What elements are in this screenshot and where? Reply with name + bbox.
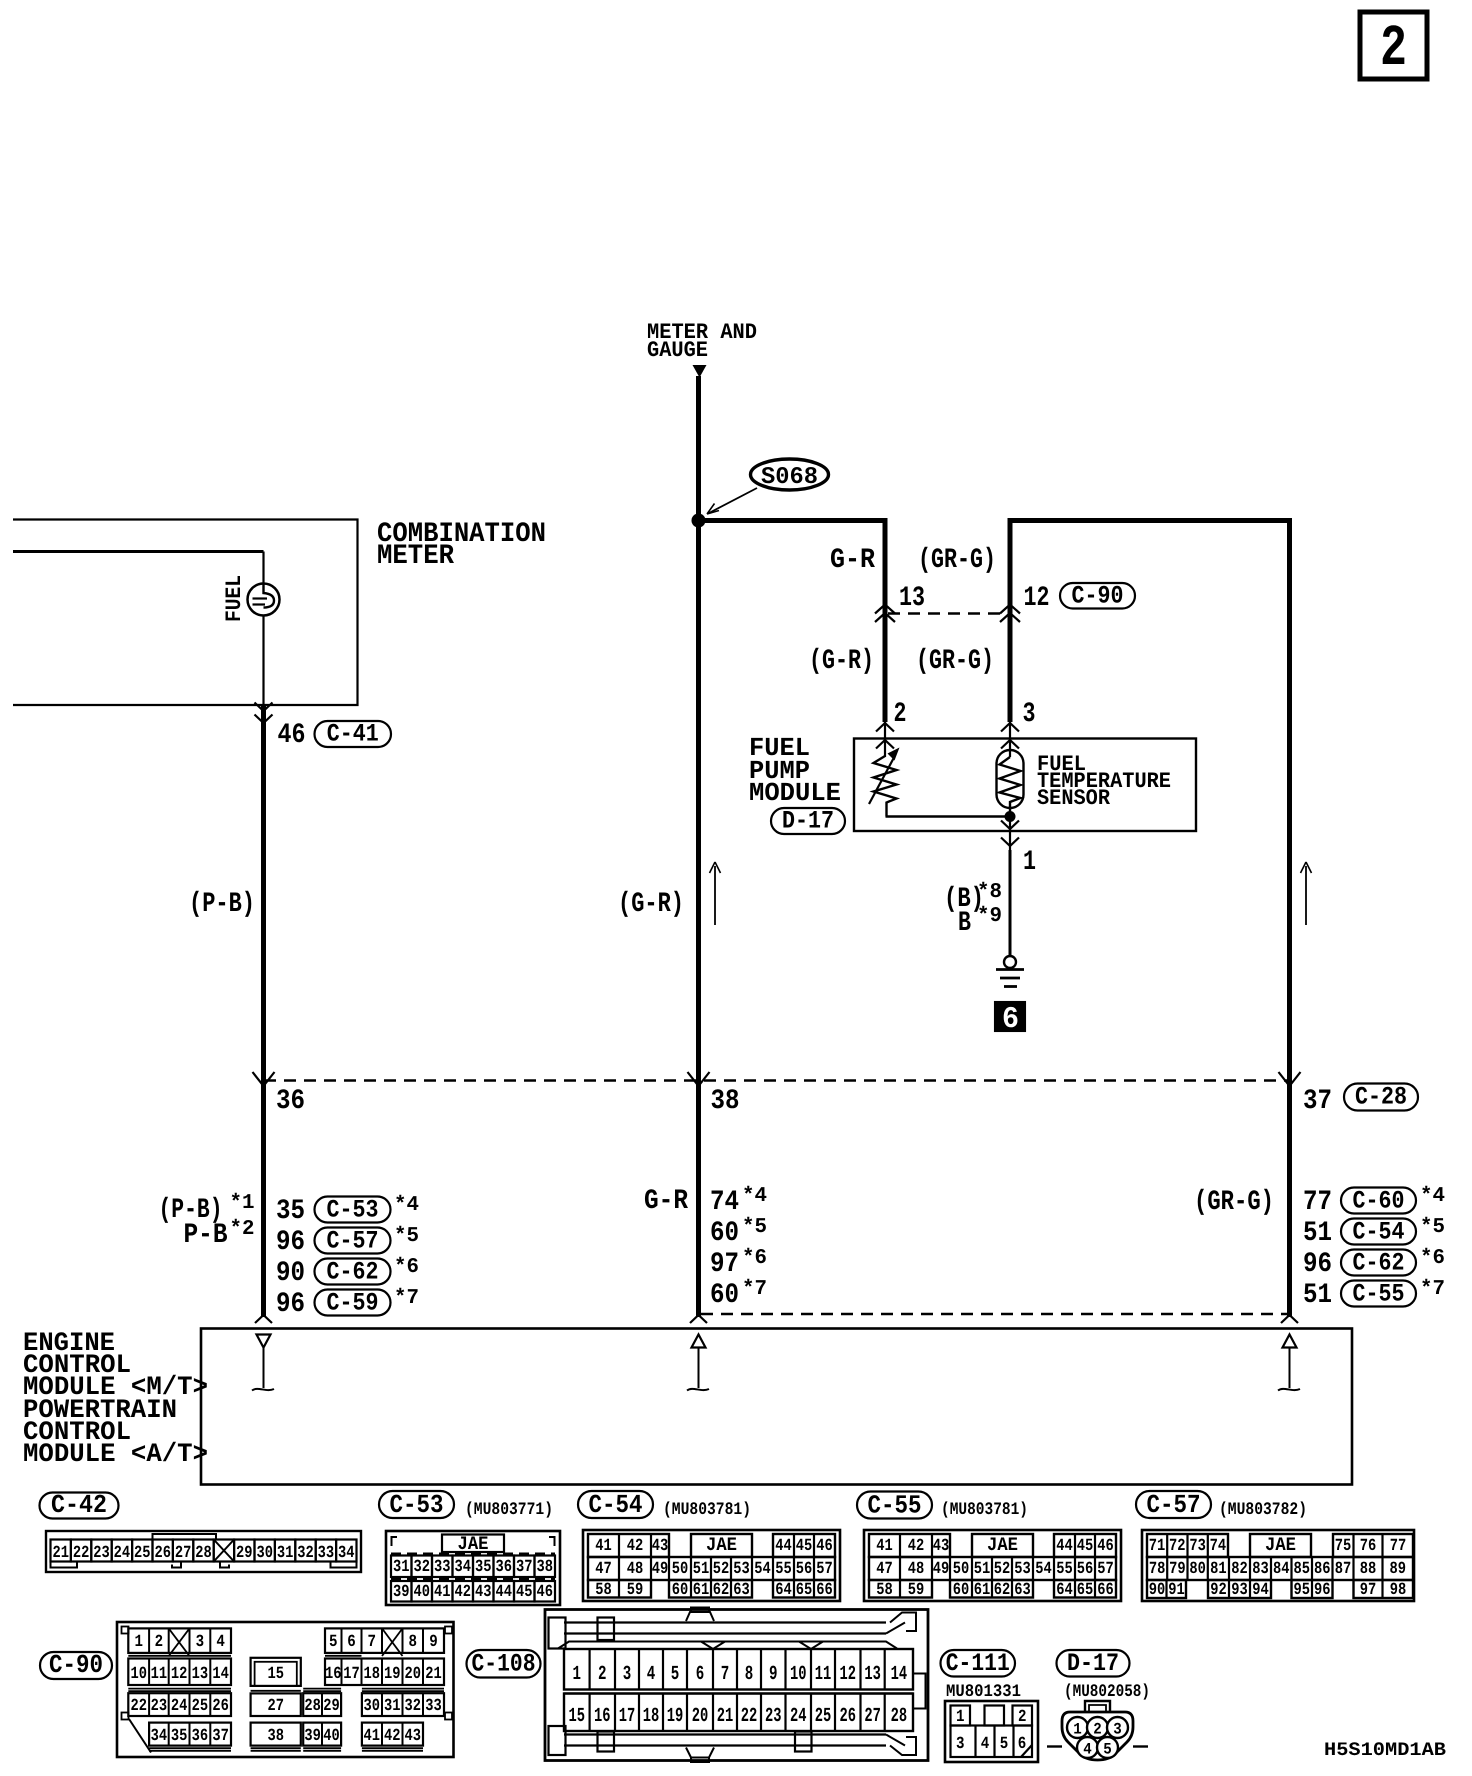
- svg-text:*5: *5: [394, 1225, 419, 1248]
- svg-text:JAE: JAE: [706, 1534, 737, 1556]
- svg-text:31: 31: [277, 1544, 294, 1563]
- svg-text:15: 15: [267, 1665, 284, 1684]
- svg-text:42: 42: [384, 1727, 401, 1746]
- svg-text:S068: S068: [761, 464, 818, 491]
- C-28 chevron right wire: [1279, 1072, 1301, 1086]
- svg-text:49: 49: [652, 1560, 669, 1579]
- svg-text:49: 49: [933, 1560, 950, 1579]
- wire P-B vertical to ECM: [261, 705, 266, 1317]
- pin 1 chevron pair: [1001, 821, 1019, 847]
- combination meter box: [13, 520, 358, 706]
- connector label C-41 stadium: [315, 721, 392, 747]
- svg-text:51: 51: [1303, 1280, 1332, 1311]
- svg-text:23: 23: [93, 1544, 110, 1563]
- svg-text:41: 41: [876, 1537, 893, 1556]
- ECM entry chevron right: [1281, 1315, 1298, 1323]
- svg-text:33: 33: [425, 1697, 442, 1716]
- svg-text:*1: *1: [230, 1192, 255, 1215]
- svg-text:C-41: C-41: [327, 720, 379, 749]
- svg-text:46: 46: [278, 720, 306, 751]
- svg-text:4: 4: [981, 1735, 990, 1754]
- svg-text:29: 29: [323, 1697, 340, 1716]
- connector C-90 pinout: [117, 1622, 454, 1757]
- connector label C-55 stadium with part number: [857, 1491, 1028, 1521]
- svg-text:96: 96: [276, 1227, 305, 1258]
- svg-text:1: 1: [573, 1663, 582, 1686]
- svg-text:27: 27: [267, 1697, 284, 1716]
- svg-text:*8: *8: [977, 881, 1002, 904]
- svg-text:54: 54: [754, 1560, 771, 1579]
- wire direction arrow middle: [710, 862, 721, 925]
- svg-text:23: 23: [765, 1705, 782, 1728]
- svg-text:6: 6: [1018, 1735, 1027, 1754]
- ground reference box 6: [994, 1001, 1026, 1037]
- svg-text:37: 37: [516, 1558, 533, 1577]
- pin 90 connector C-62*6 left: [276, 1256, 419, 1289]
- svg-text:52: 52: [713, 1560, 730, 1579]
- svg-text:17: 17: [619, 1705, 636, 1728]
- pin 96 connector C-57*5 left: [276, 1225, 419, 1258]
- svg-text:58: 58: [876, 1581, 893, 1600]
- svg-text:65: 65: [1077, 1581, 1094, 1600]
- svg-text:4: 4: [216, 1633, 225, 1652]
- connector label C-42 stadium: [40, 1493, 119, 1519]
- engine control module label: [23, 1328, 208, 1469]
- svg-text:24: 24: [114, 1544, 131, 1563]
- dashed wire through C-90: [888, 612, 1007, 615]
- fuel gauge symbol: [248, 584, 280, 616]
- svg-text:*4: *4: [1420, 1185, 1445, 1208]
- svg-text:18: 18: [643, 1705, 660, 1728]
- fuel temperature sensor thermistor capsule: [997, 750, 1024, 808]
- wire feed into fuel gauge: [13, 552, 264, 585]
- svg-text:39: 39: [393, 1583, 410, 1602]
- svg-text:48: 48: [627, 1560, 644, 1579]
- svg-text:34: 34: [338, 1544, 355, 1563]
- svg-text:5: 5: [329, 1633, 338, 1652]
- svg-text:*6: *6: [1420, 1247, 1445, 1270]
- svg-text:41: 41: [363, 1727, 380, 1746]
- connector label C-28 stadium: [1344, 1084, 1418, 1111]
- svg-text:36: 36: [192, 1727, 209, 1746]
- svg-text:6: 6: [696, 1663, 705, 1686]
- svg-text:22: 22: [130, 1697, 147, 1716]
- svg-text:6: 6: [1002, 1003, 1019, 1037]
- svg-text:47: 47: [595, 1560, 612, 1579]
- svg-text:13: 13: [899, 583, 925, 614]
- svg-text:84: 84: [1273, 1560, 1290, 1579]
- C-28 chevron middle wire: [688, 1072, 710, 1086]
- svg-text:37: 37: [212, 1727, 229, 1746]
- svg-text:21: 21: [52, 1544, 69, 1563]
- svg-text:C-57: C-57: [1147, 1490, 1201, 1520]
- svg-text:10: 10: [130, 1665, 147, 1684]
- svg-text:19: 19: [384, 1665, 401, 1684]
- svg-text:31: 31: [393, 1558, 410, 1577]
- connector label C-108 stadium: [467, 1650, 541, 1678]
- svg-text:(MU803781): (MU803781): [663, 1500, 751, 1520]
- fuel temperature sensor label: [1037, 752, 1171, 811]
- ground symbol 6: [996, 956, 1024, 987]
- svg-text:7: 7: [367, 1633, 376, 1652]
- svg-text:61: 61: [693, 1581, 710, 1600]
- svg-text:C-54: C-54: [589, 1490, 643, 1520]
- svg-text:*6: *6: [742, 1247, 767, 1270]
- svg-text:43: 43: [404, 1727, 421, 1746]
- svg-text:3: 3: [1113, 1721, 1122, 1739]
- svg-text:21: 21: [425, 1665, 442, 1684]
- svg-text:H5S10MD1AB: H5S10MD1AB: [1324, 1739, 1446, 1761]
- pin 60*5 middle: [710, 1216, 767, 1249]
- ECM terminal pin 38: [687, 1335, 709, 1391]
- svg-text:JAE: JAE: [987, 1534, 1018, 1556]
- svg-text:(GR-G): (GR-G): [1194, 1187, 1274, 1218]
- connector C-90 pin 12 chevron: [1000, 605, 1020, 614]
- svg-text:36: 36: [276, 1086, 305, 1117]
- svg-text:11: 11: [151, 1665, 168, 1684]
- svg-text:11: 11: [815, 1663, 832, 1686]
- svg-text:13: 13: [864, 1663, 881, 1686]
- svg-text:15: 15: [569, 1705, 586, 1728]
- svg-text:28: 28: [304, 1697, 321, 1716]
- svg-text:7: 7: [721, 1663, 730, 1686]
- svg-text:14: 14: [212, 1665, 229, 1684]
- ECM entry chevron middle: [690, 1315, 707, 1323]
- svg-text:42: 42: [627, 1537, 644, 1556]
- svg-text:74: 74: [1210, 1537, 1227, 1556]
- svg-text:28: 28: [195, 1544, 212, 1563]
- svg-text:35: 35: [475, 1558, 492, 1577]
- svg-text:12: 12: [1024, 583, 1050, 614]
- svg-text:3: 3: [196, 1633, 205, 1652]
- svg-text:(GR-G): (GR-G): [916, 646, 994, 677]
- svg-text:9: 9: [769, 1663, 778, 1686]
- pin 77 connector C-60*4 right: [1303, 1185, 1445, 1218]
- dashed wire above ECM: [701, 1313, 1288, 1316]
- ECM entry chevron left: [255, 1315, 272, 1323]
- svg-text:C-90: C-90: [49, 1650, 103, 1680]
- wire into thermistor: [1009, 722, 1011, 757]
- svg-text:90: 90: [1149, 1581, 1166, 1600]
- svg-text:2: 2: [598, 1663, 607, 1686]
- svg-text:40: 40: [414, 1583, 431, 1602]
- svg-text:30: 30: [256, 1544, 273, 1563]
- svg-text:50: 50: [672, 1560, 689, 1579]
- connector C-42 pinout: [46, 1531, 361, 1572]
- svg-text:77: 77: [1303, 1187, 1332, 1218]
- svg-text:4: 4: [1083, 1741, 1092, 1759]
- svg-text:74: 74: [710, 1187, 739, 1218]
- svg-text:*7: *7: [1420, 1278, 1445, 1301]
- svg-text:48: 48: [908, 1560, 925, 1579]
- svg-text:24: 24: [171, 1697, 188, 1716]
- svg-text:C-108: C-108: [472, 1649, 536, 1678]
- svg-text:60: 60: [672, 1581, 689, 1600]
- svg-text:90: 90: [276, 1258, 305, 1289]
- connector label D-17 bottom stadium: [1057, 1650, 1130, 1677]
- svg-text:34: 34: [455, 1558, 472, 1577]
- svg-text:32: 32: [414, 1558, 431, 1577]
- connector C-90 pin 13 chevron: [875, 605, 895, 614]
- svg-text:43: 43: [652, 1537, 669, 1556]
- svg-text:1: 1: [1073, 1721, 1082, 1739]
- svg-text:(MU803781): (MU803781): [941, 1500, 1028, 1520]
- svg-text:23: 23: [151, 1697, 168, 1716]
- svg-text:63: 63: [1014, 1581, 1031, 1600]
- svg-text:77: 77: [1390, 1537, 1407, 1556]
- splice S068 junction dot: [692, 514, 706, 528]
- svg-text:12: 12: [171, 1665, 188, 1684]
- svg-text:MODULE <A/T>: MODULE <A/T>: [23, 1439, 208, 1469]
- svg-text:5: 5: [1000, 1735, 1009, 1754]
- svg-text:76: 76: [1360, 1537, 1377, 1556]
- connector C-53 pinout: [386, 1531, 560, 1605]
- fuel pump module box D-17: [854, 739, 1196, 832]
- connector label C-90 stadium: [1060, 583, 1135, 609]
- page number box 2: [1360, 12, 1427, 82]
- svg-text:96: 96: [1303, 1249, 1332, 1280]
- svg-text:66: 66: [816, 1581, 833, 1600]
- svg-text:56: 56: [1077, 1560, 1094, 1579]
- wire top horizontal to C-28 pin 37: [1008, 518, 1292, 523]
- svg-text:*5: *5: [1420, 1216, 1445, 1239]
- svg-text:55: 55: [1056, 1560, 1073, 1579]
- svg-text:89: 89: [1390, 1560, 1407, 1579]
- svg-text:1: 1: [956, 1708, 965, 1727]
- svg-text:2: 2: [894, 699, 907, 730]
- svg-text:32: 32: [297, 1544, 314, 1563]
- pin 60*7 middle: [710, 1278, 767, 1311]
- svg-text:16: 16: [594, 1705, 611, 1728]
- svg-text:C-55: C-55: [1353, 1280, 1405, 1309]
- svg-text:12: 12: [840, 1663, 857, 1686]
- svg-text:71: 71: [1149, 1537, 1166, 1556]
- wire branch horizontal to pin 2: [699, 518, 888, 523]
- svg-text:C-28: C-28: [1355, 1083, 1407, 1112]
- svg-text:22: 22: [741, 1705, 758, 1728]
- svg-text:44: 44: [775, 1537, 792, 1556]
- svg-text:58: 58: [595, 1581, 612, 1600]
- svg-text:41: 41: [595, 1537, 612, 1556]
- svg-text:51: 51: [974, 1560, 991, 1579]
- wire from sender to sensor junction: [886, 815, 1009, 818]
- connector C-90 pin 13 chevron 2: [875, 613, 895, 622]
- wire vertical to fuel pump module pin 2: [883, 518, 888, 757]
- svg-text:64: 64: [775, 1581, 792, 1600]
- svg-text:55: 55: [775, 1560, 792, 1579]
- connector C-108 pinout: [545, 1608, 928, 1763]
- svg-text:17: 17: [343, 1665, 360, 1684]
- pin 3 chevron pair: [1001, 723, 1019, 749]
- pin 51 connector C-55*7 right: [1303, 1278, 1445, 1311]
- svg-text:(G-R): (G-R): [809, 646, 874, 677]
- svg-text:38: 38: [537, 1558, 554, 1577]
- svg-text:C-62: C-62: [1353, 1249, 1405, 1278]
- pin 51 connector C-54*5 right: [1303, 1216, 1445, 1249]
- svg-text:14: 14: [891, 1663, 908, 1686]
- dashed wire through C-28: [264, 1079, 1289, 1082]
- wire to ground: [1009, 850, 1012, 956]
- pin 97*6 middle: [710, 1247, 767, 1280]
- svg-text:34: 34: [151, 1727, 168, 1746]
- connector label C-57 stadium with part number: [1136, 1490, 1307, 1520]
- svg-text:42: 42: [908, 1537, 925, 1556]
- svg-text:40: 40: [323, 1727, 340, 1746]
- pin 96 connector C-62*6 right: [1303, 1247, 1445, 1280]
- svg-text:60: 60: [953, 1581, 970, 1600]
- connector label C-54 stadium with part number: [578, 1490, 751, 1520]
- connector C-111 pinout: [945, 1701, 1038, 1762]
- svg-text:1: 1: [134, 1633, 143, 1652]
- svg-text:D-17: D-17: [1067, 1649, 1119, 1678]
- svg-text:P-B: P-B: [184, 1220, 228, 1251]
- svg-text:35: 35: [276, 1196, 305, 1227]
- svg-text:91: 91: [1168, 1581, 1185, 1600]
- svg-text:44: 44: [1056, 1537, 1073, 1556]
- svg-text:41: 41: [434, 1583, 451, 1602]
- svg-text:27: 27: [864, 1705, 881, 1728]
- svg-text:43: 43: [933, 1537, 950, 1556]
- svg-text:33: 33: [434, 1558, 451, 1577]
- svg-text:C-90: C-90: [1072, 581, 1124, 610]
- connector D-17 pinout: [1047, 1701, 1148, 1760]
- svg-text:37: 37: [1303, 1086, 1332, 1117]
- svg-text:C-62: C-62: [327, 1258, 379, 1287]
- svg-text:JAE: JAE: [1265, 1534, 1296, 1556]
- variable resistor arrow: [869, 748, 900, 805]
- svg-text:(MU802058): (MU802058): [1064, 1682, 1150, 1702]
- svg-text:44: 44: [496, 1583, 513, 1602]
- svg-text:26: 26: [840, 1705, 857, 1728]
- svg-text:97: 97: [710, 1249, 739, 1280]
- svg-text:25: 25: [815, 1705, 832, 1728]
- svg-text:54: 54: [1035, 1560, 1052, 1579]
- svg-text:(G-R): (G-R): [618, 889, 684, 920]
- svg-text:53: 53: [1014, 1560, 1031, 1579]
- svg-text:3: 3: [623, 1663, 632, 1686]
- svg-text:C-53: C-53: [327, 1196, 379, 1225]
- C-28 chevron left wire: [253, 1072, 275, 1086]
- svg-text:FUEL: FUEL: [222, 575, 247, 622]
- svg-text:24: 24: [790, 1705, 807, 1728]
- arrow from meter and gauge feed: [693, 365, 707, 378]
- svg-text:(P-B): (P-B): [189, 889, 255, 920]
- svg-text:19: 19: [667, 1705, 684, 1728]
- svg-text:86: 86: [1314, 1560, 1331, 1579]
- svg-text:95: 95: [1294, 1581, 1311, 1600]
- svg-text:D-17: D-17: [782, 807, 834, 836]
- svg-text:1: 1: [1023, 847, 1036, 878]
- svg-text:35: 35: [171, 1727, 188, 1746]
- svg-text:25: 25: [134, 1544, 151, 1563]
- svg-text:*2: *2: [230, 1218, 255, 1241]
- svg-text:3: 3: [956, 1735, 965, 1754]
- wire direction arrow right: [1301, 862, 1312, 925]
- wire gauge to pin 46: [262, 616, 264, 707]
- svg-text:62: 62: [713, 1581, 730, 1600]
- svg-text:98: 98: [1390, 1581, 1407, 1600]
- svg-text:METER: METER: [377, 541, 454, 572]
- svg-text:30: 30: [363, 1697, 380, 1716]
- svg-text:57: 57: [816, 1560, 833, 1579]
- svg-text:42: 42: [455, 1583, 472, 1602]
- wire right vertical GR-G: [1287, 518, 1292, 1317]
- connector C-57 pinout: [1142, 1530, 1414, 1601]
- svg-text:96: 96: [1314, 1581, 1331, 1600]
- connector C-54 pinout: [583, 1530, 840, 1601]
- svg-text:60: 60: [710, 1218, 739, 1249]
- combination meter label: [377, 519, 546, 572]
- svg-text:46: 46: [1097, 1537, 1114, 1556]
- svg-text:*9: *9: [977, 905, 1002, 928]
- svg-text:81: 81: [1210, 1560, 1227, 1579]
- svg-text:45: 45: [516, 1583, 533, 1602]
- engine control module box: [201, 1329, 1352, 1485]
- svg-text:51: 51: [1303, 1218, 1332, 1249]
- svg-text:85: 85: [1294, 1560, 1311, 1579]
- svg-text:87: 87: [1335, 1560, 1352, 1579]
- svg-text:97: 97: [1360, 1581, 1377, 1600]
- svg-text:25: 25: [192, 1697, 209, 1716]
- svg-text:46: 46: [816, 1537, 833, 1556]
- svg-text:65: 65: [796, 1581, 813, 1600]
- svg-text:G-R: G-R: [830, 545, 875, 576]
- svg-text:*5: *5: [742, 1216, 767, 1239]
- connector C-90 pin 12 chevron 2: [1000, 613, 1020, 622]
- svg-text:59: 59: [908, 1581, 925, 1600]
- thermistor zigzag: [1000, 757, 1021, 817]
- svg-text:96: 96: [276, 1289, 305, 1320]
- svg-text:88: 88: [1360, 1560, 1377, 1579]
- svg-text:39: 39: [304, 1727, 321, 1746]
- svg-text:C-111: C-111: [946, 1649, 1010, 1678]
- svg-text:72: 72: [1169, 1537, 1186, 1556]
- svg-text:66: 66: [1097, 1581, 1114, 1600]
- leader arrow from S068 to splice: [707, 488, 757, 514]
- svg-text:MODULE: MODULE: [749, 778, 841, 808]
- wire sensor ground leg: [1009, 817, 1011, 853]
- svg-text:29: 29: [236, 1544, 253, 1563]
- svg-text:27: 27: [175, 1544, 192, 1563]
- svg-text:2: 2: [155, 1633, 164, 1652]
- svg-text:*6: *6: [394, 1256, 419, 1279]
- svg-text:C-54: C-54: [1353, 1218, 1405, 1247]
- connector C-41 pin 46 chevron pair: [255, 703, 273, 724]
- svg-text:62: 62: [994, 1581, 1011, 1600]
- svg-text:45: 45: [796, 1537, 813, 1556]
- svg-text:93: 93: [1231, 1581, 1248, 1600]
- connector label C-53 stadium with part number: [379, 1490, 553, 1520]
- svg-text:13: 13: [192, 1665, 209, 1684]
- svg-text:C-42: C-42: [51, 1490, 107, 1520]
- svg-text:60: 60: [710, 1280, 739, 1311]
- svg-text:50: 50: [953, 1560, 970, 1579]
- svg-text:31: 31: [384, 1697, 401, 1716]
- svg-text:2: 2: [1093, 1721, 1102, 1739]
- svg-text:*7: *7: [394, 1287, 419, 1310]
- svg-text:32: 32: [404, 1697, 421, 1716]
- svg-text:G-R: G-R: [644, 1186, 688, 1217]
- svg-text:C-60: C-60: [1353, 1187, 1405, 1216]
- svg-text:56: 56: [796, 1560, 813, 1579]
- wire label P-B*2: [184, 1218, 255, 1251]
- svg-text:52: 52: [994, 1560, 1011, 1579]
- svg-text:75: 75: [1335, 1537, 1352, 1556]
- svg-text:18: 18: [363, 1665, 380, 1684]
- svg-text:80: 80: [1189, 1560, 1206, 1579]
- svg-text:22: 22: [73, 1544, 90, 1563]
- svg-text:*7: *7: [742, 1278, 767, 1301]
